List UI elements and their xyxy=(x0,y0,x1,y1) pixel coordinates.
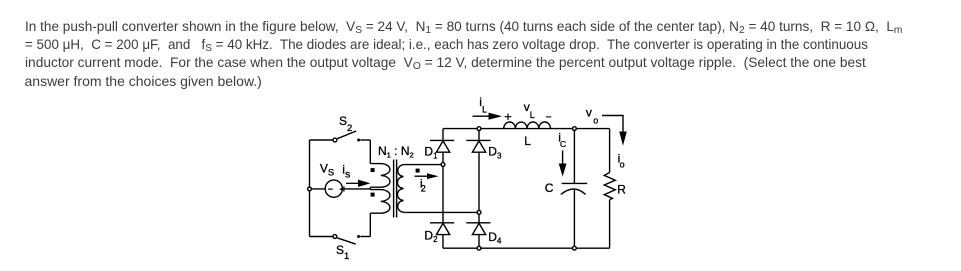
wire primary center join xyxy=(369,187,371,189)
arrow io xyxy=(602,116,627,146)
svg-text:C: C xyxy=(545,181,554,195)
svg-text:iL: iL xyxy=(479,95,487,115)
svg-text:is: is xyxy=(342,163,350,181)
wire source to center tap xyxy=(310,188,371,190)
arrow is xyxy=(346,180,371,187)
capacitor C xyxy=(561,131,587,249)
transformer core xyxy=(394,160,397,218)
wire D4 to bottom rail xyxy=(478,235,480,247)
transformer primary winding bottom half xyxy=(370,190,390,214)
arrow iC xyxy=(559,151,567,177)
svg-text:VS: VS xyxy=(320,161,334,178)
svg-text:D4: D4 xyxy=(488,230,502,246)
wire D1 branch upper xyxy=(442,129,444,141)
node secondary bottom to bridge xyxy=(477,211,481,215)
wire R branch bottom xyxy=(609,200,611,248)
switch S1 xyxy=(333,235,360,245)
wire primary vertical bottom xyxy=(369,213,371,236)
wire D1 to node xyxy=(442,152,444,162)
svg-text:vo: vo xyxy=(586,105,598,125)
wire S1 to transformer xyxy=(360,236,370,238)
arrow iL xyxy=(473,113,503,120)
diode D4 xyxy=(466,223,490,235)
wire primary vertical top xyxy=(369,140,371,164)
wire bridge bottom rail xyxy=(443,247,610,249)
svg-text:N1 : N2: N1 : N2 xyxy=(378,144,414,160)
svg-text:i2: i2 xyxy=(420,176,426,193)
node secondary top to bridge xyxy=(441,163,445,167)
wire S1 bottom left xyxy=(310,236,334,238)
wire D3 to node xyxy=(478,152,480,210)
problem statement paragraph xyxy=(25,17,929,91)
svg-text:R: R xyxy=(617,182,626,196)
svg-text:L: L xyxy=(524,134,531,148)
svg-text:S1: S1 xyxy=(336,243,349,262)
node capacitor top rail xyxy=(573,127,577,131)
transformer primary winding top half xyxy=(370,164,390,188)
wire secondary top xyxy=(404,164,443,166)
wire secondary bottom xyxy=(404,211,479,213)
node D4 bottom rail xyxy=(477,246,481,250)
svg-text:D3: D3 xyxy=(488,145,502,161)
wire left branch middle xyxy=(442,166,444,222)
svg-text:iC: iC xyxy=(558,131,566,150)
source Vs xyxy=(325,180,344,197)
polarity dot secondary xyxy=(416,169,420,173)
arrow i2 xyxy=(415,173,439,179)
wire D3 branch upper xyxy=(478,131,480,141)
svg-text:S2: S2 xyxy=(339,114,352,134)
wire right branch middle xyxy=(478,214,480,223)
svg-text:D2: D2 xyxy=(424,228,438,244)
polarity dot primary bottom xyxy=(371,193,375,197)
svg-text:D1: D1 xyxy=(424,145,438,161)
node left junction xyxy=(308,187,312,191)
wire D2 to bottom rail xyxy=(442,235,444,249)
minus sign vL xyxy=(546,116,551,118)
wire S2 top left xyxy=(310,139,334,141)
diode D2 xyxy=(430,223,454,235)
wire R branch top xyxy=(609,129,611,173)
wire left vertical xyxy=(309,140,311,237)
resistor R xyxy=(604,173,615,200)
transformer secondary winding xyxy=(397,165,404,213)
plus sign vL xyxy=(505,113,512,120)
node capacitor bottom rail xyxy=(573,246,577,250)
svg-text:io: io xyxy=(618,151,625,169)
wire S2 to transformer xyxy=(360,139,370,141)
inductor L xyxy=(504,122,551,129)
polarity dot primary top xyxy=(371,168,375,172)
wire bridge top rail xyxy=(443,128,610,130)
node D3 top rail xyxy=(477,127,481,131)
switch S2 xyxy=(333,131,360,142)
diode D1 xyxy=(430,140,454,152)
svg-text:vL: vL xyxy=(524,100,535,120)
diode D3 xyxy=(466,140,490,152)
